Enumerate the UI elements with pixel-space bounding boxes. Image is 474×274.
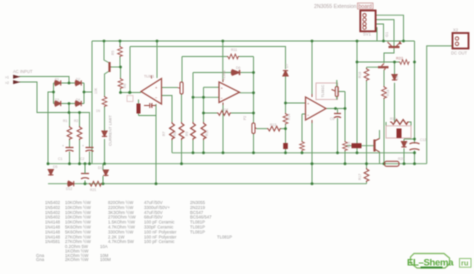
- trimmer P4: [252, 123, 255, 134]
- wire R17 bottom to bus B: [366, 81, 368, 164]
- wire U2 V+ from rail: [222, 41, 224, 82]
- logo underline: [421, 267, 443, 269]
- wire top rail V+: [92, 40, 415, 42]
- label values scattered: [53, 48, 426, 192]
- capacitor C3: [144, 103, 156, 108]
- svg-text:100M: 100M: [100, 257, 111, 262]
- connector SV1 box: [360, 11, 375, 32]
- wire U2 -input: [193, 96, 219, 98]
- wire U2 output column x253.5: [240, 57, 254, 153]
- transistor Q1 bar: [389, 46, 400, 48]
- wire bus A: [172, 152, 415, 154]
- wire node x193 column to R6 and bus A: [192, 73, 194, 153]
- svg-text:1N4581: 1N4581: [45, 239, 61, 244]
- diode D10: [102, 131, 107, 136]
- svg-text:1N: 1N: [96, 109, 101, 113]
- op-amp input polarity marks: [155, 85, 310, 118]
- wire U2 feedback top y56.5: [182, 56, 254, 58]
- svg-text:+: +: [82, 144, 84, 148]
- svg-text:−: −: [307, 113, 310, 118]
- resistor R9f: [217, 111, 231, 116]
- svg-text:R1: R1: [63, 119, 67, 123]
- wire x345 column P1 wiper R10: [339, 92, 346, 164]
- diode D1: [55, 80, 61, 85]
- wire R15 left leg: [385, 122, 387, 126]
- resistor R10: [343, 141, 348, 151]
- wire R15 right leg: [409, 122, 411, 126]
- resistor R18 boxed: [385, 161, 400, 166]
- resistor R13: [382, 86, 387, 99]
- wire P3 bottom to R5 to bus B: [181, 94, 183, 164]
- svg-text:R17: R17: [358, 174, 362, 180]
- resistor R1: [67, 126, 72, 140]
- trimmer P4 wiper: [255, 128, 256, 129]
- capacitor C12: [410, 143, 420, 150]
- wire bridge bottom row: [54, 103, 85, 105]
- svg-text:DC OUT: DC OUT: [451, 51, 467, 56]
- svg-text:+: +: [406, 141, 408, 145]
- wire Q1 base stub and link to Q2 collector: [384, 47, 394, 63]
- wire Q2 emitter column R13: [383, 70, 385, 164]
- svg-text:R11: R11: [231, 48, 237, 52]
- diode D11: [103, 170, 108, 175]
- svg-text:R20: R20: [398, 157, 404, 161]
- diode D6: [232, 70, 240, 75]
- svg-text:R18: R18: [386, 90, 390, 96]
- svg-text:+: +: [62, 144, 64, 148]
- wire bus C (negative rail): [48, 183, 367, 185]
- diode D12 in bus C: [68, 181, 74, 186]
- diode D9: [401, 142, 406, 147]
- svg-text:−: −: [155, 95, 158, 100]
- wire DC OUT feed: [427, 46, 453, 164]
- wire Q4 collector: [375, 130, 380, 141]
- wire U1 V- stub to bus C: [155, 104, 157, 184]
- wire bus B (0V): [48, 163, 427, 165]
- svg-text:>1: >1: [5, 76, 9, 80]
- svg-text:R6: R6: [123, 84, 127, 88]
- resistor R15: [390, 120, 409, 125]
- wire AC pin1 to bridge top node: [19, 77, 69, 83]
- bridge diode labels: [55, 78, 101, 114]
- wire net y62: [357, 61, 399, 63]
- capacitor C7 stubs: [139, 100, 157, 116]
- diode D2: [75, 80, 81, 85]
- svg-text:10A: 10A: [100, 244, 108, 249]
- svg-text:R10: R10: [205, 130, 209, 136]
- svg-text:R22: R22: [396, 57, 403, 61]
- svg-text:D11: D11: [98, 166, 104, 170]
- connector SV1 pins: [363, 14, 366, 30]
- connector X2 pins: [455, 37, 458, 46]
- wire U3 +input: [286, 102, 306, 104]
- svg-text:R19: R19: [390, 117, 396, 121]
- svg-text:10K: 10K: [94, 87, 98, 94]
- diode D8: [392, 75, 397, 80]
- wire C2 legs: [89, 146, 91, 164]
- wire right main vertical x414.5: [414, 41, 416, 164]
- svg-text:C12: C12: [420, 138, 426, 142]
- wire SV1 pin2 to Q1 base: [376, 20, 395, 47]
- resistor R9: [283, 113, 288, 124]
- op-amp U2 power stubs: [222, 79, 224, 105]
- logo outline: [411, 254, 450, 269]
- wire SV1 pin4: [376, 28, 378, 41]
- svg-text:P2: P2: [243, 116, 247, 120]
- resistor R12: [364, 168, 369, 182]
- wire C1 legs: [69, 146, 71, 164]
- trimmer P3: [180, 82, 183, 94]
- svg-text:2KOhm ½W: 2KOhm ½W: [65, 257, 89, 262]
- svg-text:CURRENT LIMIT: CURRENT LIMIT: [108, 115, 113, 146]
- svg-text:+: +: [155, 85, 158, 90]
- svg-text:D3: D3: [55, 98, 59, 102]
- svg-text:D7: D7: [285, 64, 289, 68]
- diode D11 legs: [102, 164, 104, 184]
- svg-text:2N3055 Extension: 2N3055 Extension: [314, 4, 357, 10]
- diode D5: [48, 170, 53, 175]
- svg-text:TL081P: TL081P: [217, 234, 232, 239]
- wire R12 legs: [366, 164, 368, 184]
- diode D7: [283, 71, 288, 76]
- resistor R11: [399, 60, 410, 65]
- wire U3 -input down to bus A: [302, 114, 306, 153]
- potentiometer P1 wiper: [332, 90, 336, 92]
- svg-text:Gna: Gna: [36, 257, 45, 262]
- resistor R3b: [118, 78, 123, 89]
- resistor R16: [102, 96, 107, 107]
- wire Q5 emitter down through R16 to bus B: [105, 72, 109, 164]
- diode D3: [55, 101, 61, 106]
- wire U1 V+ stub from rail: [156, 41, 158, 78]
- resistor R8f: [227, 54, 239, 59]
- svg-text:4.7KOhm 5W: 4.7KOhm 5W: [108, 239, 135, 244]
- transistor Q2 bar: [378, 66, 389, 68]
- transistor Q4 bar: [373, 140, 375, 152]
- svg-text:D6: D6: [236, 66, 240, 70]
- svg-text:TL081P: TL081P: [190, 229, 205, 234]
- connector X2 box (DC OUT): [453, 33, 469, 49]
- svg-text:D8: D8: [395, 76, 399, 80]
- svg-text:−: −: [221, 96, 224, 101]
- svg-text:G1: G1: [385, 32, 389, 37]
- op-amp U1 (pointing left): [141, 79, 162, 105]
- svg-text:C1: C1: [58, 157, 62, 161]
- svg-text:R9: R9: [185, 132, 189, 136]
- wire SV1 pin3: [376, 24, 384, 41]
- op-amp U3 power stubs: [311, 94, 313, 123]
- wire bridge right vertical and stub to x92: [84, 83, 92, 104]
- wire R2 column: [79, 113, 81, 164]
- wire bridge top row: [54, 82, 85, 84]
- resistor R17: [364, 68, 369, 81]
- resistor R7: [201, 122, 206, 140]
- svg-text:R16: R16: [358, 72, 362, 78]
- wire U3 V+ from rail: [311, 41, 313, 97]
- transistor Q4 leads: [375, 139, 380, 153]
- resistor R3a: [118, 46, 123, 57]
- connector X1 pin 2: [14, 81, 20, 84]
- transistor Q5: [108, 62, 110, 72]
- op-amp U1 power stubs: [151, 76, 153, 108]
- svg-text:R21: R21: [90, 188, 96, 192]
- svg-text:100 pF Ceramic: 100 pF Ceramic: [144, 239, 175, 244]
- svg-text:TL081: TL081: [222, 70, 226, 80]
- potentiometer P2 box: [386, 126, 411, 138]
- wire diode D8 column to pot P2: [394, 62, 396, 122]
- svg-text:D4: D4: [76, 98, 80, 102]
- wire SV1 pin1: [376, 15, 404, 41]
- wire U3 V- down through buses: [311, 120, 313, 184]
- wire R1 column: [69, 113, 71, 147]
- svg-text:SV1: SV1: [363, 32, 372, 37]
- op-amp U2 (pointing right): [219, 82, 240, 103]
- capacitor C8 legs: [84, 164, 86, 184]
- resistor R5: [179, 122, 184, 140]
- svg-text:R8: R8: [173, 132, 177, 136]
- box around compensation parts: [127, 96, 133, 102]
- svg-text:D2: D2: [76, 78, 80, 82]
- svg-text:ru: ru: [461, 259, 469, 268]
- svg-text:X2: X2: [453, 28, 459, 33]
- wire Q4 emitter to bus B: [375, 149, 380, 164]
- wire reference net y46.5 with corner at x130 down to U1 apex wire: [130, 47, 286, 93]
- wire U1 input B down to R4 and bus A: [162, 96, 173, 153]
- wire bridge left vertical: [53, 83, 55, 104]
- capacitor C2: [86, 148, 94, 152]
- op-amp U3 (pointing right): [306, 97, 327, 120]
- capacitor C6: [334, 114, 341, 118]
- svg-text:AC INPUT: AC INPUT: [13, 69, 33, 74]
- wire P4 wiper to R8 to x285: [257, 128, 286, 130]
- wire U2 diode branch y72.5: [241, 72, 254, 74]
- wire Q5 base to x120.5: [111, 66, 121, 68]
- wire U2 feedback path y113: [204, 112, 254, 114]
- capacitor C8: [81, 174, 89, 179]
- wire bridge bottom node down: [68, 104, 70, 113]
- wire C6 column: [337, 109, 339, 153]
- diode D4: [75, 101, 81, 106]
- svg-text:D1: D1: [55, 78, 59, 82]
- svg-text:C2: C2: [80, 157, 84, 161]
- resistor R20: [300, 141, 305, 151]
- transistor Q1 leads: [388, 42, 402, 46]
- resistor R8: [267, 126, 281, 131]
- trimmer P3 wiper: [178, 87, 181, 90]
- transistor Q2 leads: [382, 64, 386, 71]
- wire net y72.5 from x193 to U2 diode branch: [193, 72, 233, 74]
- svg-text:TL081: TL081: [144, 75, 154, 79]
- wire AC pin2 down and along to cap2: [19, 82, 90, 146]
- svg-text:R2: R2: [74, 119, 78, 123]
- svg-text:R12: R12: [222, 108, 228, 112]
- resistor R19 in bus C: [89, 181, 102, 186]
- svg-text:D12: D12: [66, 187, 72, 191]
- svg-text:R13: R13: [270, 123, 276, 127]
- wire U2 +input: [204, 86, 220, 88]
- svg-text:R5: R5: [111, 51, 115, 55]
- capacitor C5: [283, 143, 288, 149]
- resistor R2: [77, 126, 82, 140]
- wire U3 output to x345: [326, 108, 345, 110]
- wire U1 input A to trimmer P3 wiper: [162, 87, 178, 89]
- svg-text:R7: R7: [162, 132, 166, 136]
- connector X1 pin 1: [14, 75, 20, 78]
- svg-text:TL081C: TL081C: [321, 84, 325, 97]
- svg-text:>2: >2: [5, 81, 9, 85]
- svg-text:+: +: [307, 101, 310, 106]
- wire bridge left mid node down to bus B: [48, 92, 54, 164]
- wire x203.5 column to R7 and bus A: [203, 87, 205, 153]
- potentiometer P2 element: [397, 129, 402, 139]
- wire P3 top leg from feedback line: [181, 57, 183, 83]
- wire x285 column diode D7 R9 C5: [285, 47, 287, 153]
- capacitor C4: [352, 143, 362, 148]
- capacitor C1: [66, 148, 74, 152]
- transistor Q5 base lead: [110, 66, 112, 68]
- wire left vertical from rail to bus B: [91, 41, 93, 164]
- resistor R4: [170, 122, 175, 140]
- wire x357 column rail to bus A: [356, 41, 358, 153]
- wire C4 link R14 to Q4 base: [346, 145, 375, 147]
- logo ru outline: [460, 259, 472, 268]
- capacitor C7: [137, 104, 141, 114]
- wire D9 branch y139: [404, 139, 415, 164]
- wire Q2 base to R17: [367, 66, 379, 69]
- potentiometer P1 legs: [336, 80, 338, 100]
- svg-text:C6: C6: [330, 117, 334, 121]
- svg-text:R15: R15: [347, 142, 351, 148]
- potentiometer P1 box: [316, 83, 338, 100]
- wire U2 V- stub to bus A: [222, 103, 224, 153]
- svg-text:R14: R14: [287, 114, 291, 120]
- svg-text:+: +: [221, 86, 224, 91]
- svg-text:D5: D5: [53, 165, 57, 169]
- potentiometer P1 element: [335, 87, 338, 97]
- wire R3a R3b column from rail to U1 apex: [120, 41, 141, 93]
- wire rail to Q5 collector: [104, 41, 109, 63]
- resistor R6: [191, 122, 196, 140]
